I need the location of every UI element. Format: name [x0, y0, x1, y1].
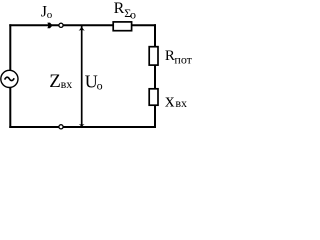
wire bottom return: [9, 126, 156, 128]
svg-text:o: o: [130, 7, 136, 21]
node A terminal (top circle): [59, 23, 63, 27]
resistor R_Sigma_o box: [113, 22, 131, 31]
wire left vertical: [9, 24, 11, 128]
svg-text:x: x: [165, 90, 175, 111]
svg-text:вх: вх: [61, 77, 73, 91]
svg-text:вх: вх: [175, 96, 187, 110]
label R_pot: [165, 48, 193, 66]
svg-text:o: o: [47, 9, 53, 21]
resistor x_vx box: [149, 89, 158, 105]
current arrow J_o on top wire: [47, 23, 52, 29]
voltage arrow U_o double-headed vertical line: [79, 25, 85, 128]
svg-text:Z: Z: [49, 71, 61, 92]
label U_o: [85, 71, 103, 92]
node B terminal (bottom circle): [59, 125, 63, 129]
svg-text:пот: пот: [174, 52, 192, 66]
wire top (node A to R_Sigma_o and corner): [9, 24, 156, 26]
wire right vertical branch: [154, 24, 156, 128]
label x_vx: [165, 90, 187, 111]
svg-text:o: o: [97, 79, 103, 93]
resistor R_pot box: [149, 47, 158, 65]
label J_o: [41, 4, 53, 21]
label R_Sigma_o: [114, 0, 136, 21]
svg-text:R: R: [114, 0, 125, 17]
ac source G (sine generator circle): [1, 70, 18, 87]
label Z_vx: [49, 71, 72, 92]
